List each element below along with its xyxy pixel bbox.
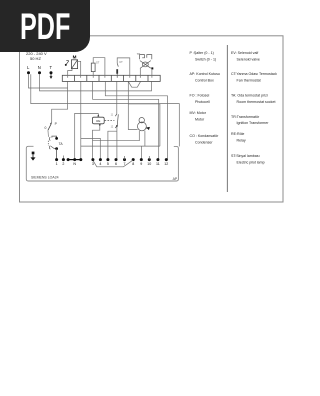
wire cell4 to terminal 12 (105, 81, 167, 159)
svg-text:CO : Kondansatör: CO : Kondansatör (190, 134, 220, 138)
wire TA to box terminal 1 (56, 149, 58, 160)
wire cell5 to contact (116, 81, 118, 114)
N group link bar (68, 159, 81, 161)
svg-text:Ignition Transformer: Ignition Transformer (237, 121, 270, 125)
wire rail to N (81, 145, 160, 147)
wire L2 rail to box corner (31, 74, 180, 146)
jumper below cells 6-7 (128, 81, 140, 87)
legend divider line (226, 45, 228, 192)
legend left column (190, 51, 220, 144)
svg-text:9: 9 (140, 162, 142, 166)
wire branch to terminal 5 (108, 131, 117, 159)
wire motor right to strip cell 2 (78, 61, 81, 78)
lamp/resistor ST above cell 3 (91, 60, 99, 71)
svg-text:RE:Röle: RE:Röle (231, 132, 244, 136)
TR spark dot (151, 67, 153, 69)
svg-text:EV: Selenoid valf: EV: Selenoid valf (231, 51, 258, 55)
svg-text:Room thermostat socket: Room thermostat socket (237, 100, 276, 104)
svg-text:10: 10 (147, 162, 151, 166)
svg-text:AP: Kontrol Kutusu: AP: Kontrol Kutusu (190, 72, 220, 76)
frame border of diagram (20, 36, 284, 202)
wire bridge cell3 to cell4 (93, 58, 105, 78)
ignition transformer TR (140, 55, 152, 69)
jumper terminal 3 to terminal 8 (93, 160, 133, 167)
PDF badge (0, 0, 90, 52)
svg-text:N: N (73, 162, 76, 166)
thermostat contact CT above cell 5 (116, 60, 123, 78)
wire N terminal up to RE (75, 113, 99, 159)
wire cell2 to terminal N (80, 81, 82, 159)
svg-text:2: 2 (62, 162, 64, 166)
svg-text:Electric pilot lamp: Electric pilot lamp (237, 161, 265, 165)
wire below resistor into cell 3 (92, 72, 94, 78)
svg-text:1: 1 (56, 162, 58, 166)
svg-text:M: M (73, 55, 77, 60)
svg-text:8: 8 (132, 162, 134, 166)
motor M (71, 55, 77, 69)
svg-text:ST: ST (96, 60, 100, 64)
wire photocell right leg (144, 131, 146, 147)
svg-text:TA: Oda termostat prizi: TA: Oda termostat prizi (231, 93, 268, 97)
light arrow at FO (146, 127, 150, 130)
svg-text:Control Box: Control Box (195, 79, 214, 83)
svg-text:T: T (50, 65, 53, 70)
node L (27, 65, 30, 74)
svg-text:AP: AP (173, 177, 178, 181)
relay RE (92, 113, 104, 126)
svg-text:12: 12 (111, 125, 114, 128)
svg-text:TA: TA (59, 142, 64, 146)
terminal strip (62, 75, 160, 81)
dashed link RE to contact (105, 119, 115, 121)
svg-text:11: 11 (156, 162, 160, 166)
svg-text:Selenoid valve: Selenoid valve (237, 58, 260, 62)
wire cell3 to terminal 11 (93, 81, 159, 159)
svg-text:P: P (55, 122, 58, 126)
control box AP outline (26, 146, 178, 181)
room thermostat socket TA (48, 136, 63, 150)
wire motor left to strip cell 1 (68, 69, 72, 78)
switch P (45, 122, 58, 137)
wire bridge cell5 to cell6 (117, 58, 130, 78)
svg-text:CT:Yanma Odası Termostadı: CT:Yanma Odası Termostadı (231, 72, 277, 76)
svg-text:L: L (27, 65, 30, 70)
wire contact to terminal 6 (116, 126, 118, 160)
svg-text:50 HZ: 50 HZ (30, 56, 41, 61)
svg-text:CT: CT (119, 60, 123, 64)
stub terminal 10 (148, 156, 150, 160)
wire terminal 9 up to rail (141, 146, 143, 159)
svg-text:N: N (38, 65, 41, 70)
terminal labels (56, 162, 169, 166)
wire N to strip cell 8 (40, 74, 152, 91)
wire L to junction (29, 74, 68, 88)
svg-text:Fan thermostat: Fan thermostat (237, 79, 261, 83)
mains plug symbol (31, 152, 36, 161)
svg-text:MV: Motor: MV: Motor (190, 111, 207, 115)
photocell FO (138, 118, 147, 131)
svg-text:6: 6 (115, 162, 117, 166)
svg-text:3: 3 (92, 162, 94, 166)
wire photocell left leg to relay node (93, 131, 140, 141)
svg-text:Relay: Relay (237, 139, 246, 143)
motor switch contact (65, 60, 69, 66)
wire cell1 down to switch P (52, 81, 68, 122)
node N (38, 65, 41, 74)
node T (50, 65, 53, 79)
contact pin labels (111, 113, 114, 128)
svg-text:Motor: Motor (195, 117, 205, 121)
svg-text:Switch (0 - 1): Switch (0 - 1) (195, 58, 216, 62)
svg-text:RE: RE (96, 119, 100, 123)
svg-text:P :Şalter (0 - 1): P :Şalter (0 - 1) (190, 51, 214, 55)
svg-text:TR: TR (137, 52, 141, 56)
svg-text:0: 0 (45, 126, 47, 130)
svg-text:4: 4 (99, 162, 101, 166)
svg-text:Condenser: Condenser (195, 140, 213, 144)
svg-text:ST:Sinyal lambası: ST:Sinyal lambası (231, 154, 260, 158)
wire N tee to terminal 4 (81, 138, 101, 159)
svg-text:FO : Fotosel: FO : Fotosel (190, 93, 210, 97)
legend right column (231, 51, 277, 164)
wire bridge over photocell (128, 104, 160, 146)
wire cell6 to photocell left (128, 81, 137, 129)
contact pivot dot (116, 125, 118, 127)
svg-text:Photocell: Photocell (195, 100, 210, 104)
svg-text:TR:Transformatör: TR:Transformatör (231, 115, 260, 119)
relay contact (115, 114, 118, 128)
box terminals row (55, 158, 168, 161)
svg-text:11: 11 (111, 113, 114, 116)
wire RE bottom to terminal 3 (93, 126, 100, 159)
svg-text:SIEMENS LOA24: SIEMENS LOA24 (31, 175, 59, 179)
svg-text:12: 12 (164, 162, 168, 166)
stub terminal 7 (124, 156, 126, 160)
stub terminal 2 (62, 156, 64, 160)
svg-text:5: 5 (107, 162, 109, 166)
TR legs to strip (140, 68, 152, 77)
